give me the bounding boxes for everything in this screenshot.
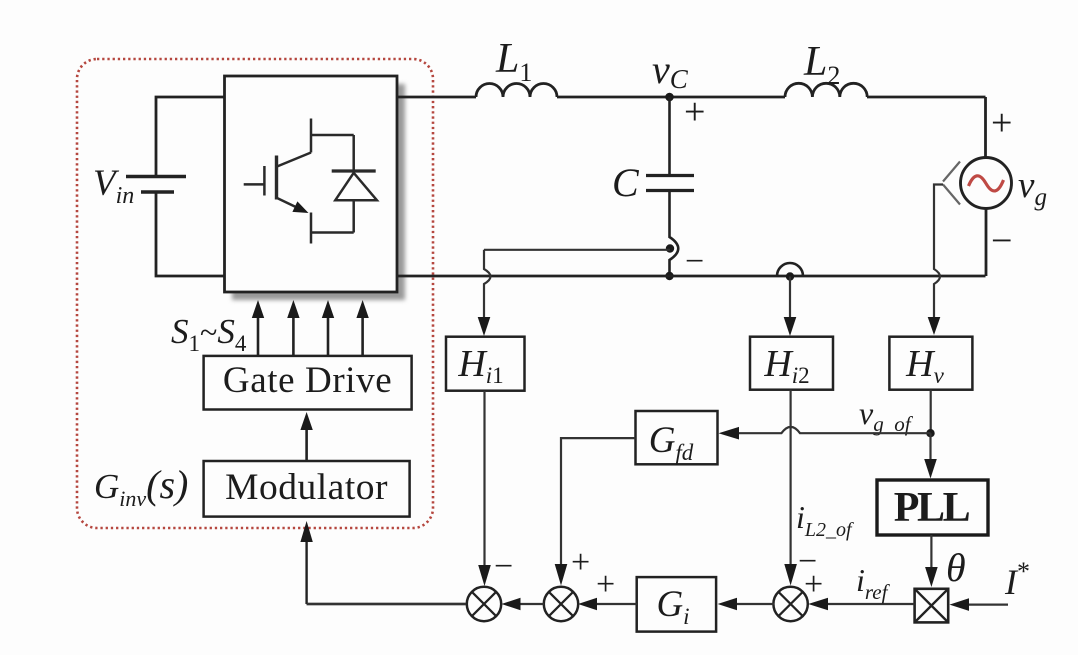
wire feedback horizontal: [307, 603, 466, 605]
transistor Q1 gate bar: [263, 166, 266, 196]
label Vin: [93, 163, 134, 209]
node capacitor bottom dot: [665, 272, 673, 280]
svg-text:Ginv(s): Ginv(s): [94, 462, 188, 511]
gate signal arrow 4: [356, 300, 368, 356]
svg-text:Gate Drive: Gate Drive: [223, 360, 392, 401]
wire Vin top: [156, 97, 225, 177]
probe clamp at vg: [943, 162, 960, 205]
gate signal arrow 3: [322, 300, 334, 356]
wire junction down to PLL: [929, 433, 931, 460]
node capacitor sense dot: [666, 244, 674, 252]
node Hi2 sense dot: [786, 272, 794, 280]
label Ginv(s): [94, 462, 188, 511]
label iL2_of: [796, 499, 854, 541]
block PLL: [877, 480, 988, 535]
wire top rail right of L2: [867, 96, 986, 99]
svg-text:+: +: [571, 544, 590, 581]
svg-text:Vin: Vin: [93, 163, 134, 209]
label S1~S4: [171, 312, 247, 356]
svg-text:+: +: [596, 566, 615, 603]
arrow into Hi2: [784, 317, 797, 336]
arrow into Hi1: [478, 317, 491, 336]
wire top rail left of L1: [397, 96, 476, 99]
summer S3 circle: [773, 587, 807, 621]
gate signal arrow 2: [287, 300, 299, 356]
label minus at summer S3: [798, 543, 817, 580]
svg-text:+: +: [804, 566, 823, 603]
arrow into Gfd right: [719, 427, 740, 440]
wire summer S2 to summer S1: [502, 598, 544, 611]
wire I* into multiplier: [950, 598, 1009, 611]
svg-text:+: +: [991, 102, 1012, 144]
capacitor C plates: [646, 176, 694, 191]
inverter U1 box: [225, 76, 398, 292]
wire summer S3 to Gi: [718, 598, 775, 611]
wire Hi1 down: [483, 391, 485, 566]
block Gi: [637, 577, 716, 632]
wire PLL down to multiplier: [930, 535, 932, 568]
svg-text:PLL: PLL: [894, 485, 970, 531]
wire Hi2 down to block: [789, 277, 791, 319]
label minus at summer S1: [494, 548, 513, 585]
label plus at summer S3: [804, 566, 823, 603]
svg-text:L2: L2: [803, 39, 840, 90]
wire Hi1 sense horizontal: [484, 249, 670, 251]
summer S1 circle: [467, 587, 501, 621]
source vg sine: [969, 176, 1004, 191]
arrow into summer S3 top: [784, 564, 797, 586]
summer S2 circle: [544, 587, 578, 621]
svg-text:vg_of: vg_of: [859, 395, 914, 436]
block Hi1: [446, 337, 525, 391]
label minus at capacitor: [685, 243, 704, 280]
label L1: [495, 36, 532, 87]
wire top rail between L1 and L2: [557, 96, 785, 99]
transistor Q1 collector lead: [310, 119, 313, 153]
svg-text:Modulator: Modulator: [225, 467, 388, 508]
svg-text:iL2_of: iL2_of: [796, 499, 854, 541]
wire diode bottom vertical: [352, 200, 355, 232]
svg-text:+: +: [684, 91, 705, 133]
wire diode top vertical: [352, 135, 355, 171]
wire bottom rail: [397, 275, 986, 278]
label plus at capacitor: [684, 91, 705, 133]
label plus right at summer S2: [596, 566, 615, 603]
wire Q1 bottom link: [311, 231, 354, 234]
label theta: [946, 545, 966, 590]
dashed enclosure G_inv: [77, 59, 433, 528]
wire vg_of to Gfd with hop: [738, 427, 931, 433]
label minus at vg: [991, 220, 1012, 262]
svg-text:I*: I*: [1004, 557, 1030, 602]
sensor loop on bottom rail for Hi2: [777, 263, 803, 276]
block Gfd: [636, 411, 718, 465]
svg-text:vC: vC: [652, 47, 689, 94]
svg-text:S1~S4: S1~S4: [171, 312, 247, 356]
diode D1 triangle: [335, 173, 377, 200]
battery Vin plate short: [141, 190, 174, 193]
arrow into summer S2 top: [555, 564, 568, 586]
svg-text:iref: iref: [856, 562, 891, 604]
inverter U1 shadow: [232, 84, 405, 300]
svg-text:vg: vg: [1018, 165, 1047, 211]
label C: [612, 160, 640, 205]
wire right rail upper: [984, 97, 987, 158]
transistor Q1 emitter lead: [310, 213, 313, 244]
svg-text:L1: L1: [495, 36, 532, 87]
battery Vin plate long: [126, 175, 186, 178]
wire Hv sense vertical with rail hop: [934, 185, 943, 319]
arrow Modulator to Gate Drive: [300, 412, 312, 461]
label L2: [803, 39, 840, 90]
capacitor C branch upper wire: [668, 97, 671, 174]
wire Vin bottom: [156, 192, 225, 276]
block Modulator: [204, 461, 410, 517]
transistor Q1 body bar: [275, 156, 278, 200]
inductor L2: [785, 83, 867, 97]
wire Q1 top link to diode: [311, 134, 354, 137]
node vg_of junction dot: [926, 429, 934, 437]
transistor Q1 collector diagonal: [277, 153, 311, 167]
label iref: [856, 562, 891, 604]
svg-text:−: −: [991, 220, 1012, 262]
label vg: [1018, 165, 1047, 211]
label plus upper at summer S2: [571, 544, 590, 581]
svg-text:C: C: [612, 160, 640, 205]
wire Gi to summer S2: [578, 598, 637, 611]
transistor Q1 emitter diagonal with arrow: [277, 198, 309, 213]
label vg_of: [859, 395, 914, 436]
wire Hi1 sense vertical with rail hop: [484, 250, 491, 318]
arrow into Hv: [928, 317, 941, 335]
diode D1 cathode bar: [332, 169, 376, 172]
label vC: [652, 47, 689, 94]
block Hi2: [750, 337, 833, 390]
inductor L1: [476, 84, 557, 98]
source vg circle: [961, 158, 1012, 209]
label I*: [1004, 557, 1030, 602]
arrow into multiplier top: [925, 567, 938, 587]
label plus at vg: [991, 102, 1012, 144]
block Gate Drive: [204, 356, 412, 410]
arrow into PLL: [924, 459, 937, 479]
wire Gfd out left and down to summer S2: [561, 438, 636, 565]
multiplier M1 box: [915, 589, 949, 623]
svg-text:θ: θ: [946, 545, 966, 590]
wire right rail lower: [985, 209, 988, 277]
arrow into summer S1 top: [478, 565, 491, 586]
transistor Q1 gate lead: [244, 183, 265, 186]
svg-text:−: −: [685, 243, 704, 280]
block Hv: [889, 337, 972, 390]
gate signal arrow 1: [252, 300, 264, 356]
arrow feedback into Modulator: [300, 521, 312, 604]
capacitor C branch lower wire with sensor hook: [670, 192, 679, 276]
wire Hv down to junction: [930, 390, 932, 434]
node vC dot: [665, 93, 674, 102]
wire Hi2 down to summer S3: [789, 390, 791, 565]
svg-text:−: −: [494, 548, 513, 585]
wire summer S1 output to feedback corner: [307, 603, 466, 605]
wire multiplier to summer S3: [808, 598, 914, 611]
